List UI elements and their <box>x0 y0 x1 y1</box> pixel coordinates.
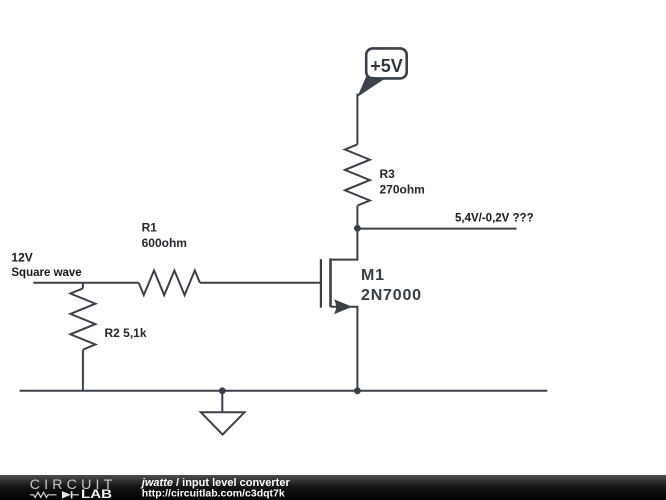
svg-text:M1: M1 <box>361 267 385 284</box>
transistor M1 source arrow <box>334 299 352 314</box>
resistor R3 <box>345 144 370 205</box>
svg-text:270ohm: 270ohm <box>380 183 425 197</box>
logo resistor zigzag <box>30 492 57 497</box>
svg-text:R2 5,1k: R2 5,1k <box>105 326 147 340</box>
ground rail wire <box>20 390 548 392</box>
svg-text:http://circuitlab.com/c3dqt7k: http://circuitlab.com/c3dqt7k <box>142 487 285 499</box>
transistor M1 source lead <box>331 307 358 391</box>
svg-text:+5V: +5V <box>370 56 403 76</box>
wire node to drain <box>331 228 358 259</box>
junction dot ground <box>219 387 226 394</box>
wire R1 to gate <box>200 282 321 284</box>
junction dot source <box>354 387 361 394</box>
svg-text:2N7000: 2N7000 <box>361 287 422 304</box>
wire output <box>357 228 516 230</box>
resistor R1 <box>139 271 200 296</box>
power flag +5V box <box>366 48 407 78</box>
ground stem <box>221 391 223 413</box>
svg-text:R1: R1 <box>142 221 158 235</box>
logo diode <box>62 491 71 498</box>
svg-text:12V: 12V <box>11 251 32 265</box>
power flag tail <box>358 77 384 96</box>
wire R3 to output node <box>356 206 358 229</box>
resistor R2 <box>70 288 95 349</box>
wire input to R1 <box>33 282 138 284</box>
node output junction dot <box>354 225 361 232</box>
svg-text:5,4V/-0,2V ???: 5,4V/-0,2V ??? <box>455 213 534 225</box>
wire R2 to ground rail <box>82 350 84 391</box>
logo diode cathode bar <box>71 491 73 498</box>
transistor M1 channel bar <box>329 258 332 306</box>
logo diode lead <box>71 494 79 496</box>
svg-text:Square wave: Square wave <box>11 267 81 279</box>
wire +5V to R3 <box>356 94 358 145</box>
svg-text:LAB: LAB <box>81 489 112 500</box>
transistor M1 gate bar <box>320 259 322 307</box>
ground symbol triangle <box>201 412 245 434</box>
wire R2 stem <box>82 283 84 289</box>
svg-text:600ohm: 600ohm <box>142 236 187 250</box>
svg-text:R3: R3 <box>380 167 396 181</box>
footer bar <box>0 475 666 500</box>
